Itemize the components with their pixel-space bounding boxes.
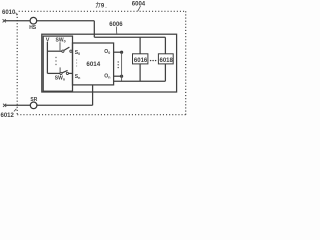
wire: O0 output arrow [114,51,121,53]
switch SW0 : right contact [70,50,72,52]
svg-text:6004: 6004 [132,2,146,8]
svg-text:SW0: SW0 [56,38,66,44]
switch SW0 : lever [64,47,70,50]
junction dot O0 [120,51,123,54]
svg-text:6016: 6016 [134,58,148,64]
wire: 6016 bottom drop [139,64,141,81]
dashed enclosure 6004 : top edge [19,10,186,12]
leader tick for 6012 [14,109,17,112]
svg-text:S0: S0 [75,50,80,56]
input terminal X (HS) [3,19,6,22]
dashed enclosure 6004 : bottom edge [17,114,186,116]
dashed enclosure 6004 : right edge [185,11,187,114]
wire: SR riser to 6014 bottom [92,85,94,105]
svg-text:6012: 6012 [1,113,15,119]
svg-text:O0: O0 [104,49,110,55]
switch SWn : lever [62,70,68,73]
wire: V bus [46,42,48,73]
wire: 6018 bottom drop [164,64,166,81]
leader for 6004 [138,6,141,11]
switch SWn : feed wire [47,72,60,74]
switch SWn : out wire [69,72,73,74]
switch SWn : right contact [66,72,68,74]
svg-text:6010: 6010 [2,10,16,16]
switch SWn : left contact [60,72,62,74]
wire: bottom bus [114,80,166,82]
sensor circle SR [30,102,37,109]
wire: sensor circle to corner [37,20,94,22]
svg-text:On: On [104,73,110,79]
wire: SR terminal to circle [6,104,31,106]
actuator tick SWn [59,67,61,73]
svg-text:6018: 6018 [160,58,174,64]
block 6006 [42,34,177,92]
wire: drop to 6016 top [139,37,141,54]
wire: output bus vertical [121,52,123,81]
dashed enclosure 6004 : left edge [16,14,18,115]
sensor circle HS [30,17,37,24]
switch SW0 : feed wire [47,50,61,52]
switch SW0 : left contact [62,50,64,52]
switch SW0 : out wire [71,50,74,52]
svg-text:9: 9 [101,3,105,9]
input terminal X (SR) [3,104,6,107]
leader tick for 6010 [16,13,18,16]
ellipsis between 6016 and 6018 [150,60,151,61]
block 6014 [73,43,114,85]
leader for 6006 [115,27,118,34]
ellipsis between outputs [118,61,119,62]
ellipsis in switch block [55,57,56,58]
svg-text:SR: SR [30,97,37,103]
switch block [43,36,72,91]
svg-text:6014: 6014 [86,61,100,68]
block 6016 [133,54,148,64]
actuator tick SW0 [59,42,61,50]
svg-text:Sn: Sn [75,74,81,80]
svg-text:HS: HS [29,25,37,31]
wire: On output arrow [114,75,121,77]
wire: HS top bus [94,36,165,38]
wire: drop to 6018 top [164,37,166,54]
figure caption (blurred kanji) [96,2,101,8]
wire: SR circle to riser [37,104,93,106]
junction dot On [120,75,123,78]
block 6018 [158,54,173,64]
ellipsis inside 6014 left [76,59,77,60]
svg-text:SWn: SWn [55,75,65,81]
wire: HS drop at right of corner [93,21,95,38]
wire: HS terminal to sensor circle [5,20,30,22]
